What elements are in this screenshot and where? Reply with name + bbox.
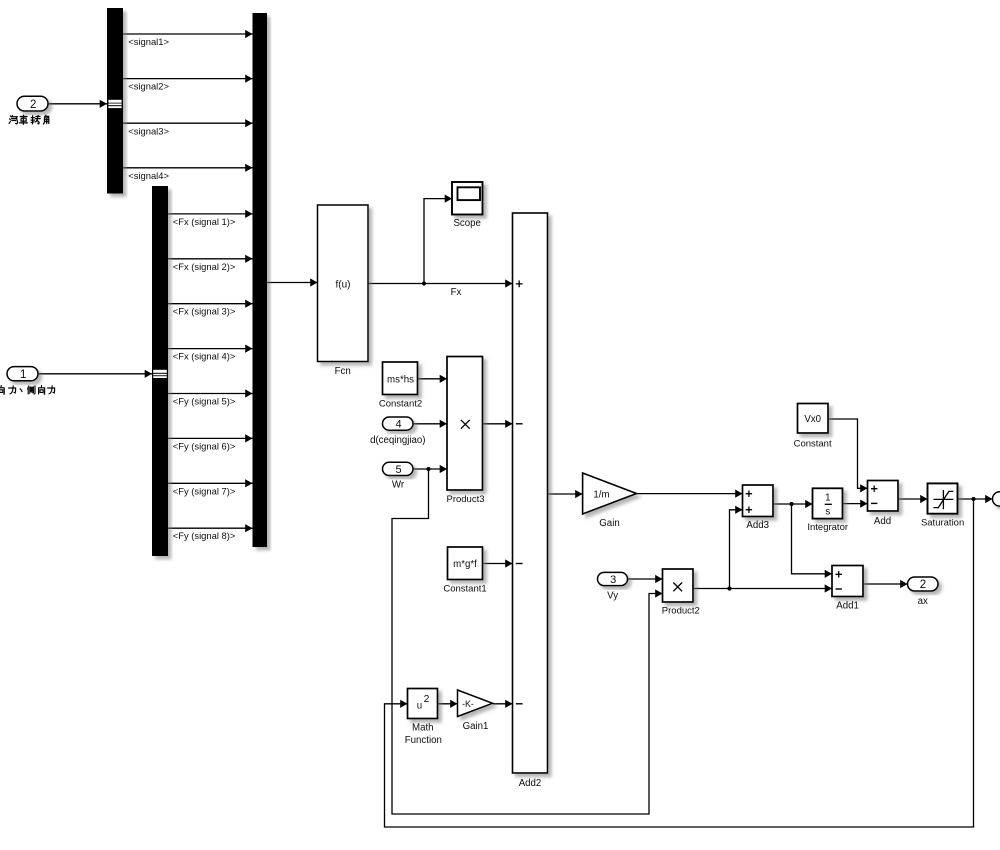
svg-text:Add: Add (874, 516, 891, 527)
svg-text:<Fx (signal 4)>: <Fx (signal 4)> (173, 351, 236, 362)
svg-text:u: u (417, 701, 422, 712)
svg-text:<signal3>: <signal3> (128, 125, 169, 136)
svg-text:<signal1>: <signal1> (128, 36, 169, 47)
svg-text:2: 2 (920, 579, 926, 591)
svg-text:Add1: Add1 (836, 601, 859, 612)
svg-text:ax: ax (918, 596, 928, 607)
svg-text:d(ceqingjiao): d(ceqingjiao) (370, 435, 425, 446)
svg-text:<Fx (signal 3)>: <Fx (signal 3)> (173, 306, 236, 317)
svg-text:<Fx (signal 2)>: <Fx (signal 2)> (173, 261, 236, 272)
svg-text:Gain1: Gain1 (463, 721, 489, 732)
svg-text:<Fx (signal 1)>: <Fx (signal 1)> (173, 216, 236, 227)
svg-text:<Fy (signal 6)>: <Fy (signal 6)> (173, 440, 236, 451)
svg-text:Vx0: Vx0 (804, 414, 821, 425)
svg-text:1/m: 1/m (593, 490, 609, 501)
svg-text:m*g*f: m*g*f (453, 559, 477, 570)
svg-text:s: s (825, 507, 830, 518)
svg-text:<Fy (signal 7)>: <Fy (signal 7)> (173, 485, 236, 496)
svg-text:4: 4 (395, 419, 401, 431)
svg-text:-K-: -K- (462, 699, 474, 709)
svg-text:Function: Function (405, 735, 442, 746)
svg-text:Constant2: Constant2 (379, 399, 422, 410)
svg-text:Math: Math (412, 722, 434, 733)
svg-text:Constant1: Constant1 (443, 584, 486, 595)
svg-text:Fcn: Fcn (335, 366, 351, 377)
svg-text:1: 1 (825, 492, 830, 503)
svg-text:5: 5 (395, 464, 401, 476)
svg-text:1: 1 (20, 369, 26, 381)
svg-text:Fx: Fx (451, 287, 462, 298)
svg-text:Integrator: Integrator (807, 522, 848, 533)
svg-text:Add3: Add3 (746, 520, 769, 531)
svg-text:ms*hs: ms*hs (387, 375, 414, 386)
svg-text:Constant: Constant (794, 439, 832, 450)
svg-text:Saturation: Saturation (921, 518, 964, 529)
svg-text:<signal2>: <signal2> (128, 81, 169, 92)
svg-text:Product2: Product2 (662, 606, 700, 617)
svg-text:Scope: Scope (453, 218, 480, 229)
svg-text:Wr: Wr (392, 480, 405, 491)
svg-text:<Fy (signal 5)>: <Fy (signal 5)> (173, 395, 236, 406)
svg-text:f(u): f(u) (336, 279, 351, 290)
svg-text:Vy: Vy (607, 590, 618, 601)
svg-text:2: 2 (424, 693, 430, 705)
svg-text:2: 2 (30, 99, 36, 111)
svg-text:Add2: Add2 (519, 778, 542, 789)
svg-text:Gain: Gain (599, 518, 619, 529)
svg-text:<signal4>: <signal4> (128, 170, 169, 181)
svg-text:3: 3 (610, 574, 616, 586)
svg-text:Product3: Product3 (446, 494, 484, 505)
svg-text:<Fy (signal 8)>: <Fy (signal 8)> (173, 530, 236, 541)
